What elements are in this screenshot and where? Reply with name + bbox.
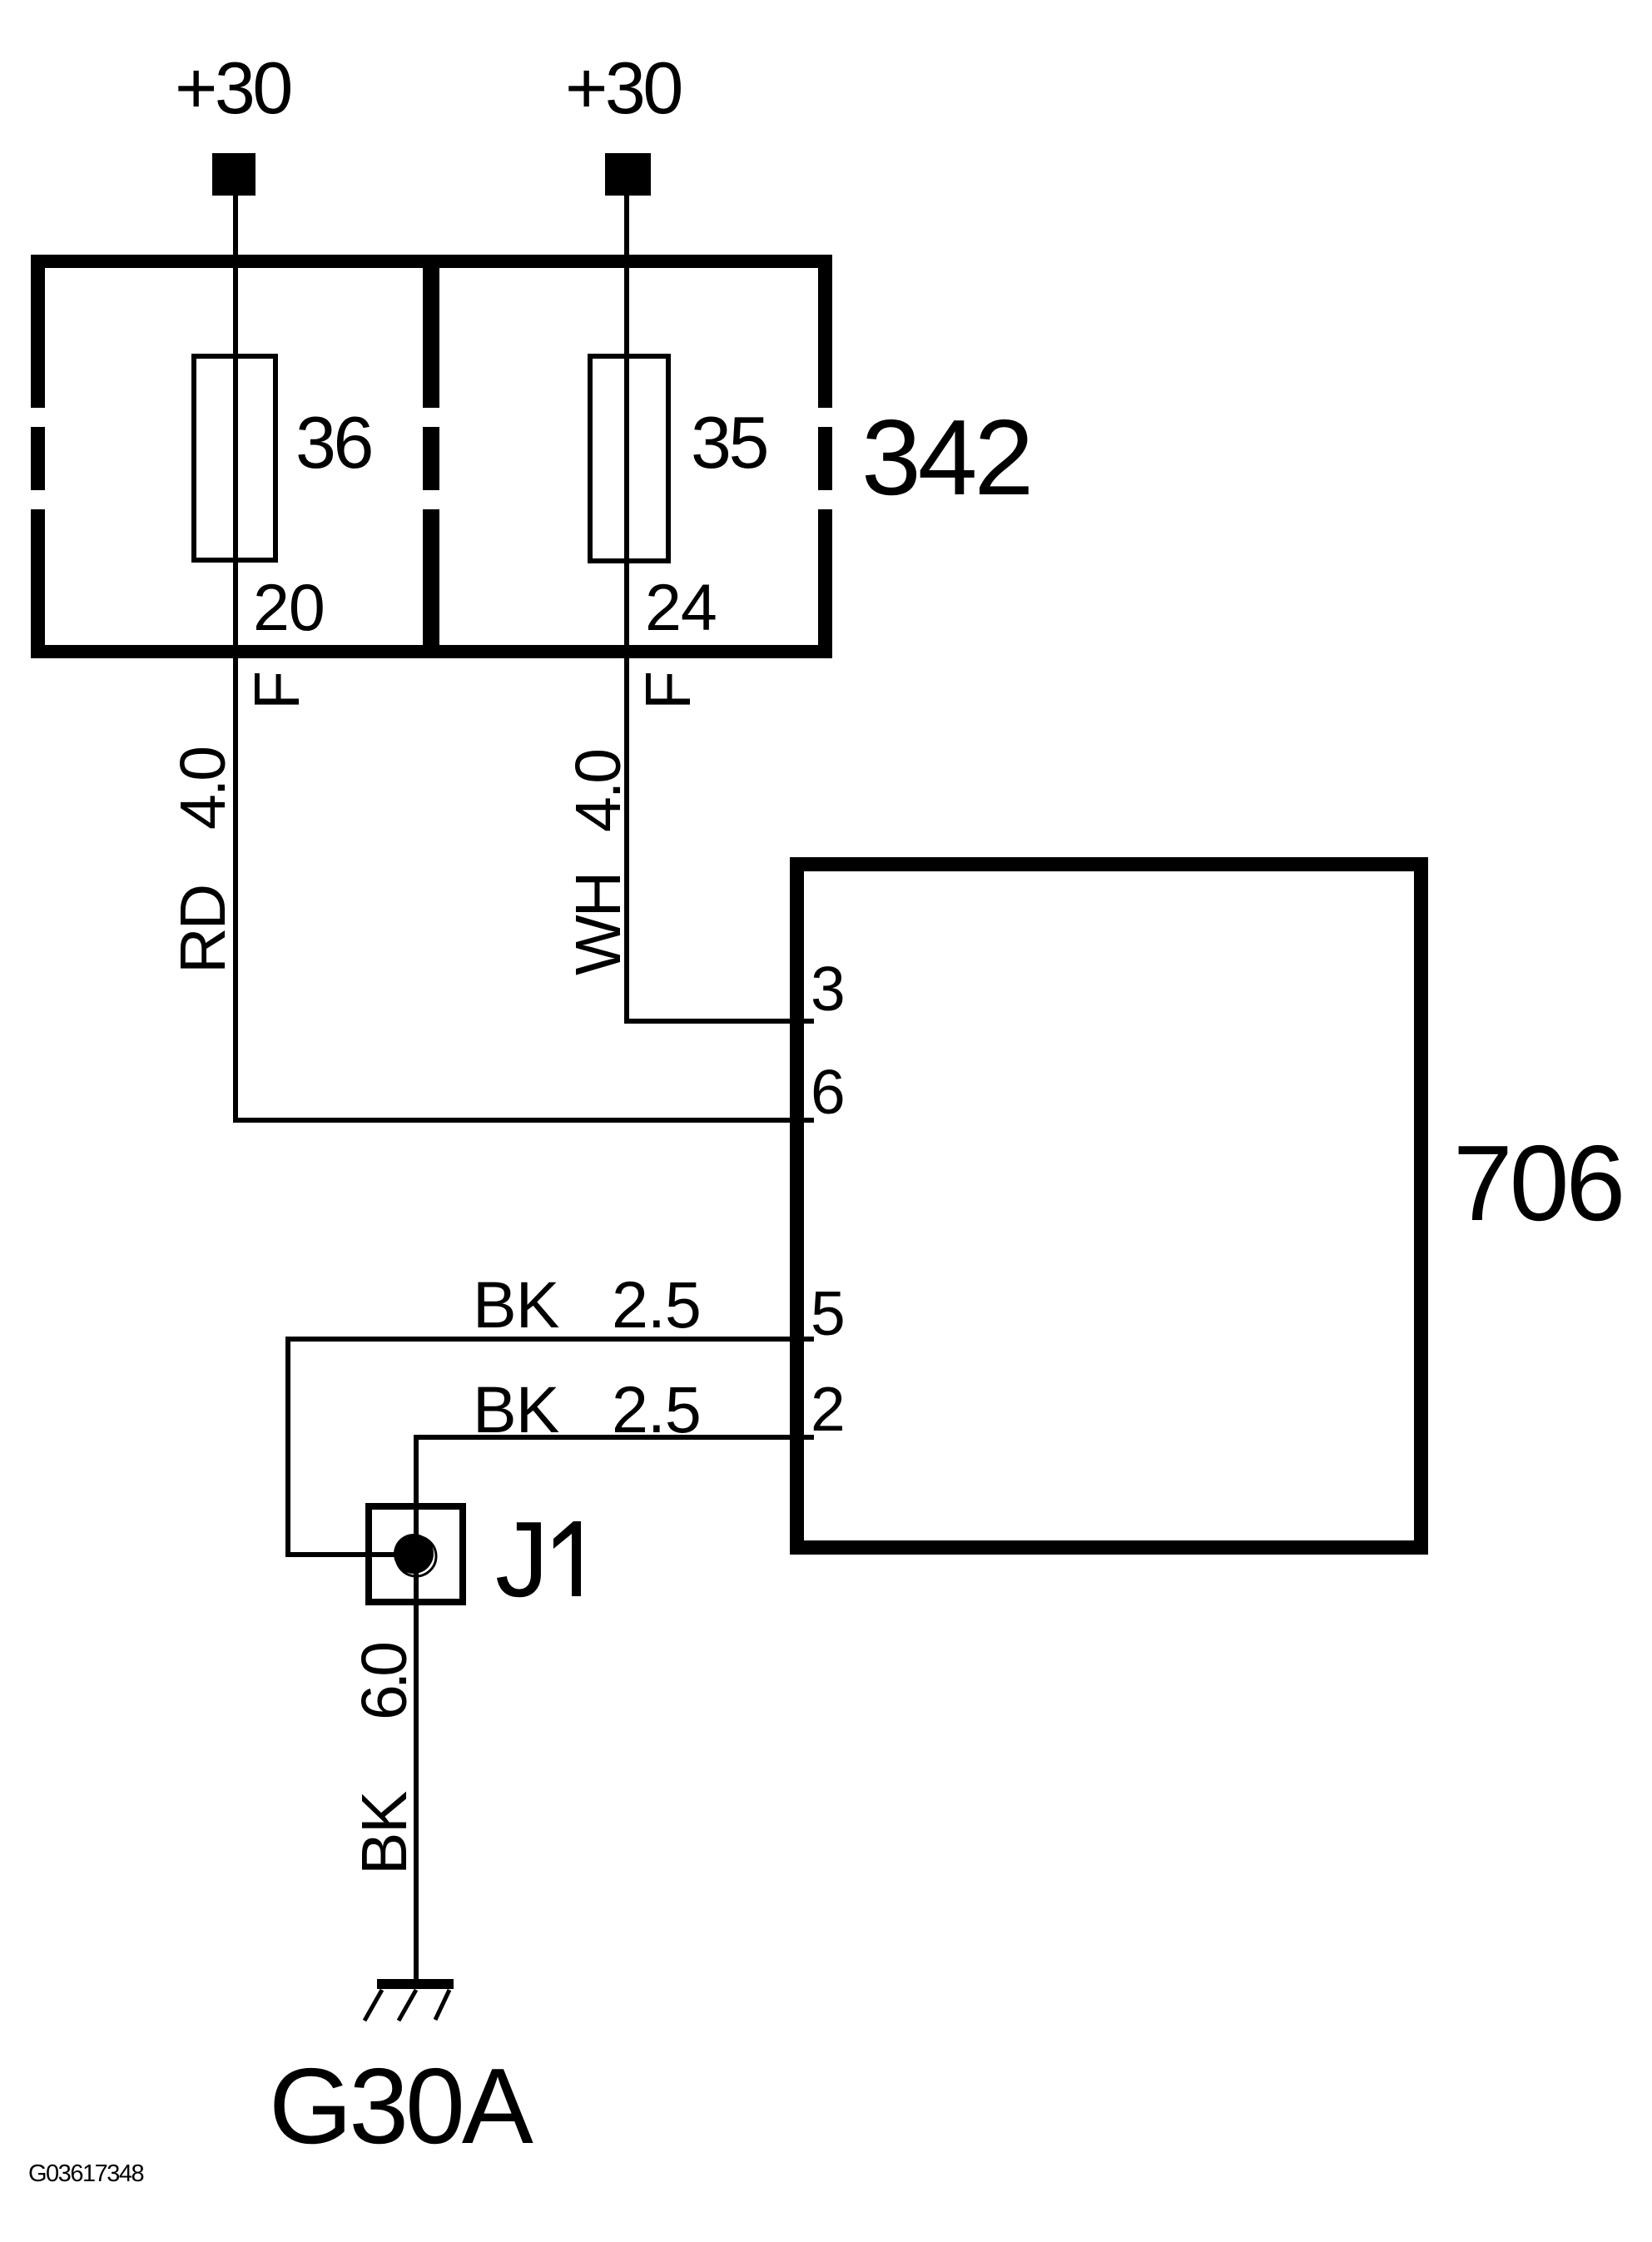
control unit box 706 left border <box>790 857 804 1555</box>
svg-text:G03617348: G03617348 <box>28 2160 143 2187</box>
digit 1 of J1 (custom narrow glyph) <box>553 1521 581 1596</box>
svg-text:6: 6 <box>811 1057 846 1127</box>
fuse box 342 middle dashed divider <box>423 268 439 408</box>
svg-text:4.0: 4.0 <box>563 751 634 832</box>
svg-text:BK: BK <box>473 1267 559 1342</box>
svg-text:F: F <box>241 671 313 710</box>
svg-text:342: 342 <box>861 398 1030 518</box>
svg-text:4.0: 4.0 <box>167 748 239 830</box>
svg-text:+30: +30 <box>175 47 290 129</box>
control unit box 706 top border <box>790 857 1428 871</box>
svg-text:706: 706 <box>1453 1123 1622 1243</box>
fuse box 342 bottom border <box>31 645 832 658</box>
control unit box 706 right border <box>1414 857 1428 1555</box>
power terminal square (left) <box>212 153 255 196</box>
wire RD vertical from +30 square through fuse 36 down to corner <box>233 196 238 1123</box>
svg-text:G30A: G30A <box>269 2046 533 2166</box>
junction J1 node dot offset ring <box>396 1536 436 1576</box>
svg-text:20: 20 <box>253 570 325 644</box>
fuse box 342 right dashed border <box>818 255 832 408</box>
wire BK 2.5 from pin 5 horizontal <box>285 1337 814 1342</box>
svg-text:+30: +30 <box>565 47 681 129</box>
wire WH horizontal run to pin 3 of 706 <box>624 1019 814 1024</box>
svg-text:WH: WH <box>563 874 634 975</box>
junction J1 node dot <box>394 1534 434 1574</box>
svg-text:BK: BK <box>473 1372 559 1446</box>
svg-text:24: 24 <box>645 570 717 644</box>
svg-text:J: J <box>495 1500 549 1619</box>
power terminal square (right) <box>605 153 651 196</box>
wire RD horizontal run to pin 6 of 706 <box>233 1118 814 1123</box>
wire BK 6.0 from J1 down to ground <box>414 1555 419 1979</box>
control unit box 706 bottom border <box>790 1540 1428 1555</box>
svg-text:BK: BK <box>349 1791 420 1875</box>
ground symbol hatch strokes <box>365 1990 449 2021</box>
junction J1 box <box>369 1506 463 1602</box>
svg-text:3: 3 <box>811 954 846 1024</box>
svg-text:2.5: 2.5 <box>612 1267 701 1342</box>
svg-text:F: F <box>633 671 704 710</box>
wire BK 2.5 pin 5 vertical drop <box>285 1337 290 1557</box>
svg-text:6.0: 6.0 <box>349 1644 420 1720</box>
svg-text:RD: RD <box>167 886 239 974</box>
fuse 36 body <box>194 356 275 560</box>
svg-text:2.5: 2.5 <box>612 1372 701 1446</box>
ground symbol bar <box>377 1979 454 1989</box>
svg-text:36: 36 <box>295 401 371 484</box>
wire BK 2.5 pin 2 vertical drop into J1 <box>414 1435 419 1556</box>
svg-text:2: 2 <box>811 1374 846 1444</box>
svg-text:5: 5 <box>811 1278 846 1348</box>
wire BK 2.5 from pin 2 horizontal <box>414 1435 814 1440</box>
wire WH vertical from +30 square through fuse 35 down to corner <box>624 196 629 1024</box>
wire into junction J1 from left <box>285 1552 416 1557</box>
fuse 35 body <box>590 356 668 561</box>
fuse box 342 top border <box>31 255 832 268</box>
fuse box 342 left dashed border <box>31 255 45 408</box>
svg-text:35: 35 <box>691 401 766 484</box>
